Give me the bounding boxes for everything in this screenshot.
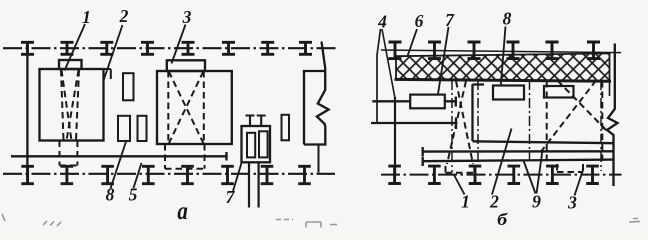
svg-text:8: 8 bbox=[106, 185, 115, 205]
svg-text:8: 8 bbox=[503, 9, 512, 29]
svg-text:3: 3 bbox=[567, 193, 577, 213]
svg-text:2: 2 bbox=[489, 192, 499, 212]
svg-text:7: 7 bbox=[445, 10, 455, 30]
svg-text:4: 4 bbox=[377, 12, 387, 32]
svg-text:7: 7 bbox=[226, 187, 236, 207]
svg-text:2: 2 bbox=[119, 6, 129, 26]
svg-text:а: а bbox=[177, 198, 188, 225]
svg-text:6: 6 bbox=[415, 11, 424, 31]
svg-text:1: 1 bbox=[461, 192, 470, 212]
svg-text:1: 1 bbox=[82, 7, 91, 27]
svg-text:3: 3 bbox=[182, 7, 192, 27]
svg-text:9: 9 bbox=[532, 192, 541, 212]
svg-text:5: 5 bbox=[129, 185, 138, 205]
